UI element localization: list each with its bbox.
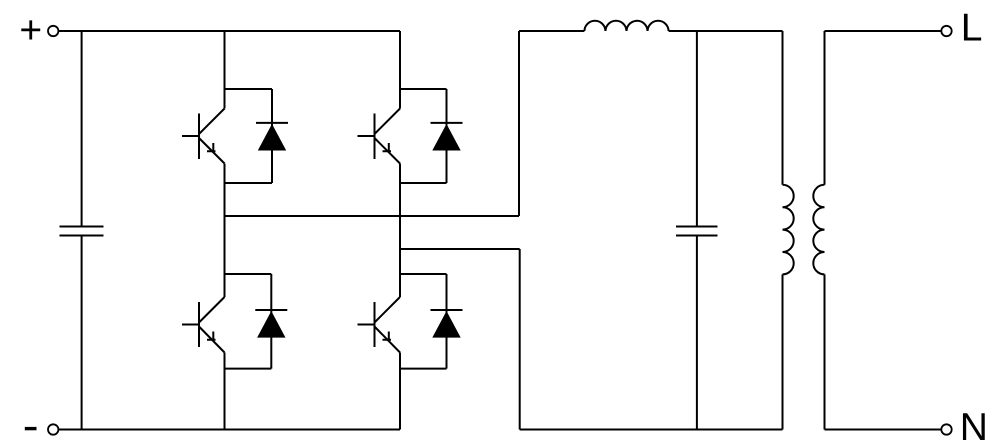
transistor Q4 — [358, 297, 401, 353]
wire Q1-D1 top branch — [225, 88, 273, 90]
wire right output drop — [519, 249, 521, 430]
diode D1 — [256, 89, 288, 183]
wire right leg collector drop — [399, 31, 401, 109]
transformer T1 primary top lead — [782, 31, 784, 185]
terminal circle minus — [48, 424, 58, 434]
diode D3 — [255, 274, 287, 369]
capacitor C1 bottom lead — [81, 236, 83, 430]
capacitor C1 top lead — [81, 31, 83, 227]
diode D4 — [431, 274, 463, 369]
transistor Q2 — [358, 109, 401, 164]
wire secondary to L — [825, 30, 942, 32]
capacitor C2 top lead — [696, 31, 698, 227]
wire Q4-D4 top branch — [400, 273, 447, 275]
wire left leg emitter drop — [224, 353, 226, 430]
terminal circle plus — [48, 26, 58, 36]
wire Q2-D2 top branch — [400, 88, 447, 90]
wire bottom DC rail — [58, 429, 400, 431]
capacitor C2 — [676, 227, 718, 236]
terminal circle N — [941, 424, 951, 434]
wire secondary to N — [825, 429, 942, 431]
transistor Q1 — [182, 109, 225, 164]
label - — [25, 427, 37, 430]
transformer T1 primary bottom lead — [782, 274, 784, 429]
capacitor C1 — [60, 227, 104, 236]
transformer T1 secondary top lead — [824, 31, 826, 185]
wire left leg collector drop — [224, 31, 226, 109]
wire Q3-D3 top branch — [225, 273, 272, 275]
svg-text:+: + — [19, 9, 42, 52]
wire right bridge output — [400, 248, 520, 250]
inductor L1 — [584, 21, 668, 31]
wire to inductor — [519, 30, 584, 32]
wire left bridge output — [225, 215, 520, 217]
capacitor C2 bottom lead — [696, 236, 698, 430]
wire right leg middle — [399, 164, 401, 298]
wire bottom AC rail — [520, 429, 783, 431]
wire right leg emitter drop — [399, 353, 401, 430]
wire left output riser — [518, 31, 520, 216]
transformer T1 secondary winding — [813, 185, 824, 275]
svg-text:N: N — [960, 406, 988, 448]
svg-text:L: L — [961, 6, 983, 49]
wire Q4-D4 bottom branch — [400, 368, 447, 370]
wire inductor to primary — [669, 30, 783, 32]
wire Q2-D2 bottom branch — [400, 182, 447, 184]
wire Q3-D3 bottom branch — [225, 368, 272, 370]
wire left leg middle — [224, 164, 226, 298]
transformer T1 primary winding — [783, 185, 794, 275]
terminal circle L — [941, 26, 951, 36]
transformer T1 secondary bottom lead — [824, 274, 826, 429]
transistor Q3 — [182, 297, 225, 353]
wire Q1-D1 bottom branch — [225, 182, 273, 184]
diode D2 — [431, 89, 463, 183]
wire top DC rail — [58, 30, 400, 32]
